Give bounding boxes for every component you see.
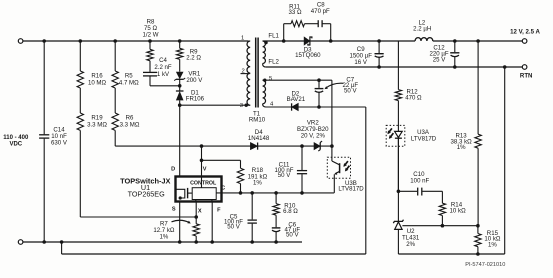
svg-text:D: D xyxy=(171,166,175,172)
svg-text:LTV817D: LTV817D xyxy=(338,185,364,192)
resistor R11 xyxy=(291,21,305,27)
wire: drain node xyxy=(180,104,251,106)
diode D4 1N4148 xyxy=(250,143,257,150)
capacitor C4 xyxy=(143,71,157,73)
transformer secondary winding FL1-FL2 xyxy=(263,41,266,64)
capacitor C5 xyxy=(250,191,254,195)
svg-text:LTV817D: LTV817D xyxy=(411,135,437,142)
svg-text:1%: 1% xyxy=(488,241,497,248)
svg-text:10 kΩ: 10 kΩ xyxy=(450,208,467,215)
svg-text:470 Ω: 470 Ω xyxy=(405,95,422,102)
svg-text:2.2 µH: 2.2 µH xyxy=(413,26,431,33)
svg-text:S: S xyxy=(172,207,176,213)
svg-text:2.2 Ω: 2.2 Ω xyxy=(186,55,201,62)
svg-text:200 V: 200 V xyxy=(186,77,203,84)
svg-text:50 V: 50 V xyxy=(344,88,357,95)
diode D1 xyxy=(179,86,181,91)
svg-text:12 V, 2.5 A: 12 V, 2.5 A xyxy=(510,29,540,36)
svg-text:1N4148: 1N4148 xyxy=(248,135,270,142)
transformer T1 primary winding xyxy=(247,41,250,105)
pin 2 stub xyxy=(241,73,251,75)
wire: primary return jog xyxy=(60,240,64,244)
opto U3B phototransistor xyxy=(332,161,340,165)
diode D2 BAV21 xyxy=(292,103,299,110)
svg-text:BAV21: BAV21 xyxy=(287,96,306,103)
transformer bias winding 5-4 xyxy=(263,80,266,104)
wire: TL431 ref line xyxy=(402,225,478,227)
svg-text:630 V: 630 V xyxy=(51,139,68,146)
arrow to R7 xyxy=(172,220,190,222)
inductor L2 xyxy=(415,38,433,41)
svg-text:2%: 2% xyxy=(406,241,415,248)
wire: secondary output xyxy=(263,40,416,42)
polarity dot secondary xyxy=(264,41,267,44)
node V-line junction xyxy=(200,144,204,148)
svg-text:FL1: FL1 xyxy=(268,33,279,40)
resistor R19 xyxy=(79,88,81,113)
resistor R18 xyxy=(237,168,243,183)
resistor R12 xyxy=(397,41,399,90)
polarity dot pin3 xyxy=(245,104,248,107)
svg-text:6.8 Ω: 6.8 Ω xyxy=(283,208,298,215)
wire: R18 branch xyxy=(202,159,241,161)
transformer core xyxy=(255,38,257,108)
U1 internal V link xyxy=(201,177,203,188)
svg-text:20 V, 2%: 20 V, 2% xyxy=(301,133,326,140)
wire: snubber loop xyxy=(282,39,286,43)
svg-text:V: V xyxy=(203,166,207,172)
svg-text:CONTROL: CONTROL xyxy=(190,181,217,187)
svg-text:1%: 1% xyxy=(253,180,262,187)
svg-text:C4: C4 xyxy=(159,57,167,64)
wire: bias positive xyxy=(263,79,332,81)
wire: primary ground rail xyxy=(23,241,302,243)
capacitor C11 xyxy=(301,146,303,170)
node: TL431 cathode / C10 xyxy=(397,190,401,194)
zener VR2 xyxy=(314,143,320,150)
shunt regulator U2 TL431 xyxy=(397,138,399,221)
wire: CONTROL pin line xyxy=(216,192,334,194)
U1 controller block xyxy=(192,188,216,200)
resistor R13 xyxy=(476,39,480,43)
arrow to C7 xyxy=(326,83,344,88)
optocoupler U3B box xyxy=(327,157,350,178)
node: +HV input rail xyxy=(23,40,249,42)
wire: RTN to secondary ground xyxy=(503,65,507,69)
resistor R7 xyxy=(193,224,199,236)
IC U1 TOPSwitch-JX TOP265EG body xyxy=(176,177,222,202)
svg-text:25 V: 25 V xyxy=(433,56,446,63)
wire: R19 bottom to X pin xyxy=(80,216,196,218)
U1 internal mosfet xyxy=(176,189,185,198)
resistor R15 xyxy=(477,226,479,234)
svg-text:470 pF: 470 pF xyxy=(311,8,330,15)
wire: bias return pin4 xyxy=(266,106,366,108)
diode D3 15TQ060 xyxy=(304,37,310,45)
svg-text:1: 1 xyxy=(241,36,244,42)
svg-text:1 kV: 1 kV xyxy=(157,71,170,78)
svg-text:FL2: FL2 xyxy=(268,59,279,66)
wire: F pin xyxy=(211,202,213,243)
input terminal - (bottom left) xyxy=(18,240,23,245)
wire: D pin xyxy=(179,105,181,176)
svg-text:3: 3 xyxy=(240,103,244,109)
polarity dot bias xyxy=(263,79,266,82)
zener VR1 xyxy=(176,72,184,80)
svg-text:C: C xyxy=(221,186,225,192)
svg-text:110 - 400: 110 - 400 xyxy=(3,135,29,141)
output terminal RTN xyxy=(522,65,527,70)
capacitor C7 xyxy=(318,80,320,88)
wire: X pin xyxy=(195,202,197,224)
svg-text:33 Ω: 33 Ω xyxy=(288,9,301,16)
svg-text:15TQ060: 15TQ060 xyxy=(295,52,321,59)
svg-text:2: 2 xyxy=(241,68,244,74)
svg-text:1%: 1% xyxy=(159,234,168,241)
svg-text:16 V: 16 V xyxy=(354,59,367,66)
resistor R16 xyxy=(79,41,81,71)
svg-text:5: 5 xyxy=(269,76,273,82)
capacitor C6 xyxy=(272,227,281,229)
svg-text:3.3 MΩ: 3.3 MΩ xyxy=(120,121,140,128)
resistor R14 xyxy=(439,203,445,215)
U1 internal X F links xyxy=(195,200,197,202)
svg-text:RM10: RM10 xyxy=(249,116,266,123)
svg-text:50 V: 50 V xyxy=(278,172,291,179)
capacitor C9 xyxy=(377,39,381,43)
svg-text:1/2 W: 1/2 W xyxy=(143,31,159,38)
opto U3B light arrows xyxy=(344,161,348,166)
capacitor C14 xyxy=(43,41,45,134)
svg-text:F: F xyxy=(217,207,221,213)
node C11 top xyxy=(300,144,304,148)
wire: secondary return xyxy=(266,66,524,68)
svg-text:TOP265EG: TOP265EG xyxy=(128,189,165,198)
svg-text:100 nF: 100 nF xyxy=(410,177,429,184)
svg-text:50 V: 50 V xyxy=(227,223,240,230)
svg-text:VDC: VDC xyxy=(9,142,22,148)
svg-text:3.3 MΩ: 3.3 MΩ xyxy=(87,121,107,128)
resistor R9 xyxy=(178,39,182,43)
optocoupler U3A box xyxy=(386,125,405,146)
resistor R10 xyxy=(274,191,278,195)
svg-text:1%: 1% xyxy=(457,144,466,151)
node opto collector xyxy=(330,144,334,148)
resistor R6 xyxy=(114,88,116,113)
svg-text:X: X xyxy=(198,209,202,215)
resistor R8 xyxy=(148,39,152,43)
wire: opto collector xyxy=(331,80,333,161)
svg-text:2.2 nF: 2.2 nF xyxy=(154,64,172,71)
svg-text:4.7 MΩ: 4.7 MΩ xyxy=(119,79,139,86)
opto U3A LED xyxy=(395,131,403,137)
wire: line-sense to V pin xyxy=(115,145,332,147)
svg-text:FR106: FR106 xyxy=(186,96,205,103)
wire: bias return to primary gnd xyxy=(365,107,367,254)
capacitor C12 xyxy=(453,39,457,43)
svg-text:10 MΩ: 10 MΩ xyxy=(88,79,107,86)
input terminal + (top left) xyxy=(18,39,23,44)
svg-text:50 V: 50 V xyxy=(286,232,299,239)
wire: V pin xyxy=(201,146,203,176)
svg-text:RTN: RTN xyxy=(520,72,533,79)
wire: S pin xyxy=(179,202,181,243)
output terminal 12V xyxy=(522,39,527,44)
svg-text:4: 4 xyxy=(270,101,274,107)
resistor R5 xyxy=(114,41,116,71)
svg-text:PI-5747-021010: PI-5747-021010 xyxy=(465,262,505,268)
opto U3A light arrows xyxy=(388,128,392,133)
capacitor C8 xyxy=(317,20,319,27)
capacitor C10 xyxy=(398,190,417,192)
